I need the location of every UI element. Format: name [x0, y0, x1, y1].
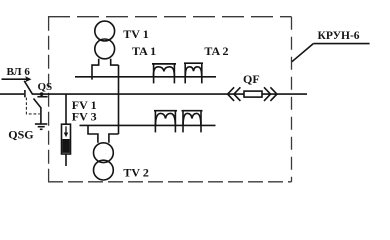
- wire: main line right segment through QF: [33, 93, 308, 95]
- current transformer TA1 top bar: [152, 63, 176, 65]
- node: junction dot on main line: [40, 92, 44, 96]
- circuit breaker QF left drawout chevrons: [228, 87, 241, 101]
- svg-text:КРУН-6: КРУН-6: [318, 30, 360, 42]
- earthing switch QSG blade: [34, 99, 41, 108]
- voltage transformer TV2 pedestal: [88, 125, 119, 142]
- svg-text:TV 2: TV 2: [123, 166, 148, 180]
- svg-text:TA 2: TA 2: [204, 44, 228, 58]
- wire: main line left segment: [0, 93, 24, 95]
- wire: upper measuring line: [75, 76, 216, 78]
- callout leader line to cabinet: [292, 44, 314, 62]
- svg-text:TV 1: TV 1: [123, 27, 148, 41]
- current transformer TA4 legs: [182, 111, 184, 132]
- circuit breaker QF body: [244, 91, 262, 97]
- voltage transformer TV1 pedestal: [92, 59, 119, 80]
- disconnector QS blade: [24, 81, 33, 95]
- voltage transformer TV1 windings: [95, 21, 115, 41]
- wire: lower measuring line: [80, 124, 216, 126]
- mechanical linkage dashed line QS-QSG: [26, 98, 39, 114]
- wire: central vertical tie: [118, 65, 120, 134]
- ground symbol: [35, 124, 47, 129]
- svg-text:QSG: QSG: [8, 128, 33, 142]
- current transformer TA2 winding humps: [185, 67, 201, 78]
- wire: below arrester: [65, 154, 67, 166]
- current transformer TA4 (lower right) top bar: [182, 110, 203, 112]
- current transformer TA3 legs: [154, 111, 156, 132]
- current transformer TA4 winding humps: [183, 113, 201, 125]
- disconnector QS fixed contact tick: [24, 90, 26, 97]
- earthing switch QSG stub: [41, 94, 43, 96]
- svg-text:ВЛ 6: ВЛ 6: [7, 66, 31, 78]
- circuit breaker QF right drawout chevrons: [264, 87, 277, 101]
- earthing switch QSG fixed contact bar: [37, 96, 47, 98]
- wire: branch to arrester FV: [65, 94, 67, 124]
- current transformer TA2 top bar: [184, 62, 203, 64]
- wire: QSG down to ground: [40, 107, 42, 123]
- cabinet dashed border left edge: [48, 17, 50, 182]
- flow direction arrow of VL 6: [2, 78, 27, 80]
- cabinet dashed border KRUN-6 top edge: [48, 16, 292, 18]
- svg-text:FV 3: FV 3: [72, 110, 97, 124]
- current transformer TA1 legs: [153, 64, 155, 83]
- voltage transformer TV2 windings: [94, 143, 114, 163]
- arrester arrow inside: [65, 126, 67, 133]
- svg-text:TA 1: TA 1: [132, 44, 156, 58]
- current transformer TA3 (lower left) top bar: [154, 110, 177, 112]
- current transformer TA1 winding humps: [153, 67, 174, 78]
- current transformer TA2 legs: [184, 63, 186, 83]
- surge arrester FV body: [62, 124, 71, 154]
- svg-text:QF: QF: [243, 72, 260, 86]
- arrester filled block: [62, 139, 70, 153]
- cabinet dashed border right edge: [291, 17, 293, 182]
- current transformer TA3 winding humps: [156, 113, 176, 125]
- cabinet dashed border bottom edge: [48, 181, 292, 183]
- callout underline for KRUN-6: [313, 43, 369, 45]
- svg-text:QS: QS: [38, 81, 53, 93]
